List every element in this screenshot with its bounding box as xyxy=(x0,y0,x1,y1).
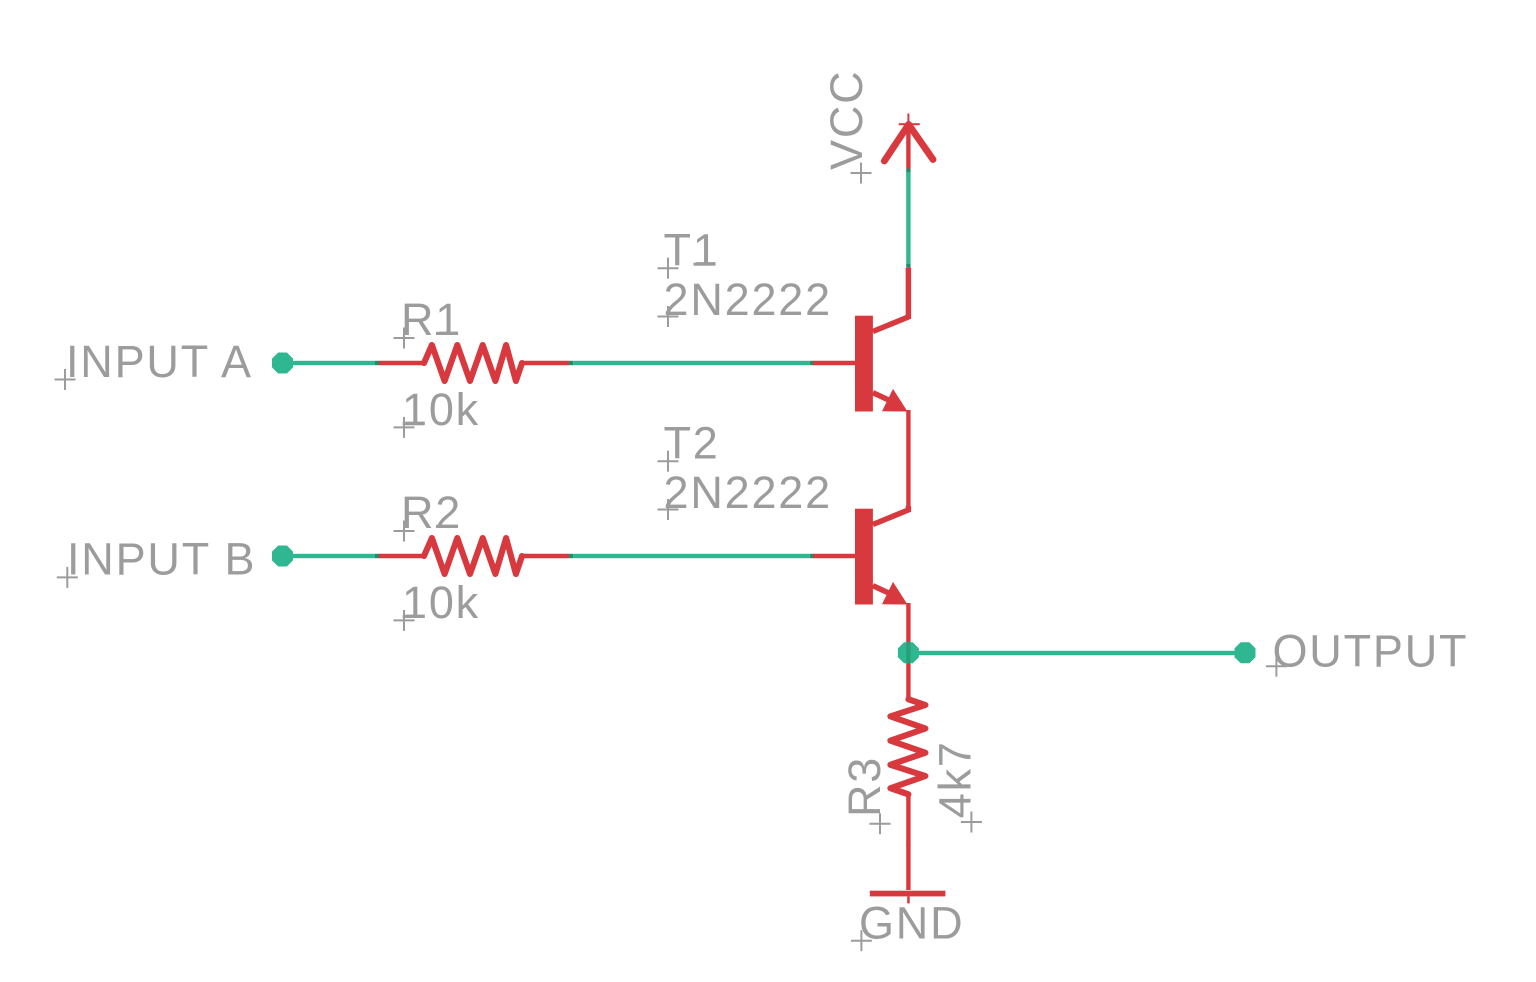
svg-text:4k7: 4k7 xyxy=(930,740,981,818)
origin cross for OUTPUT xyxy=(1266,656,1287,677)
origin cross for 2N2222 (T1) xyxy=(658,306,679,327)
power flag VCC xyxy=(884,114,933,169)
wire INPUT A to R1 xyxy=(282,361,375,365)
resistor R2 xyxy=(379,538,569,574)
svg-text:VCC: VCC xyxy=(821,70,872,170)
svg-text:2N2222: 2N2222 xyxy=(664,467,832,518)
node OUTPUT terminal xyxy=(1235,642,1256,663)
origin cross for INPUT A xyxy=(55,369,76,390)
svg-text:INPUT B: INPUT B xyxy=(67,534,256,585)
node INPUT A terminal xyxy=(272,353,293,374)
origin cross for GND xyxy=(851,930,872,951)
origin cross for INPUT B xyxy=(57,567,78,588)
svg-text:R3: R3 xyxy=(839,756,890,817)
wire R2 to T2 base xyxy=(569,554,814,558)
node output junction xyxy=(898,642,919,663)
origin cross for 10k (R1) xyxy=(394,417,415,438)
resistor R1 xyxy=(379,345,569,381)
wire INPUT B to R2 xyxy=(282,554,375,558)
transistor T2 (2N2222 NPN) xyxy=(813,506,908,653)
origin cross for VCC xyxy=(851,163,872,184)
svg-text:GND: GND xyxy=(859,897,964,948)
origin cross for 10k (R2) xyxy=(394,610,415,631)
origin cross for 2N2222 (T2) xyxy=(658,499,679,520)
origin cross for R1 xyxy=(394,328,415,349)
wire R1 to T1 base xyxy=(569,361,814,365)
node INPUT B terminal xyxy=(272,546,293,567)
svg-text:OUTPUT: OUTPUT xyxy=(1273,625,1469,676)
origin cross for 4k7 xyxy=(961,812,982,833)
origin cross for T1 xyxy=(658,258,679,279)
ground GND xyxy=(870,844,946,903)
wire VCC to T1 collector xyxy=(906,169,910,268)
origin cross for R2 xyxy=(394,521,415,542)
wire joint xyxy=(375,361,379,365)
origin cross for R3 xyxy=(870,813,891,834)
pin T1 collector (red) xyxy=(906,268,910,317)
svg-text:INPUT A: INPUT A xyxy=(66,336,253,387)
wire output node to OUTPUT terminal xyxy=(908,651,1245,655)
origin cross for T2 xyxy=(658,451,679,472)
transistor T1 (2N2222 NPN) xyxy=(813,268,908,506)
svg-text:2N2222: 2N2222 xyxy=(664,274,832,325)
resistor R3 xyxy=(890,653,925,845)
wire joint xyxy=(375,554,379,558)
